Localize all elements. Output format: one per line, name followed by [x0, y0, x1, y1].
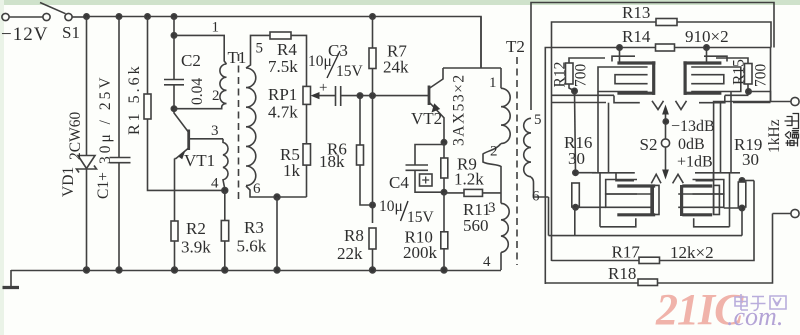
- svg-text:0.04: 0.04: [189, 78, 206, 105]
- svg-text:1: 1: [212, 20, 220, 36]
- svg-text:C2: C2: [181, 51, 201, 70]
- left green scan edge: [0, 0, 4, 335]
- svg-text:4: 4: [483, 254, 491, 270]
- svg-text:12k×2: 12k×2: [670, 243, 714, 262]
- ground bus nodes: [84, 267, 90, 273]
- wire R11 to T2 pin3: [483, 192, 502, 194]
- svg-text:R2: R2: [186, 219, 206, 238]
- capacitor C3: [335, 86, 337, 106]
- wire stubs upper-left: [552, 94, 615, 96]
- transistor VT1 emitter with arrow: [175, 149, 189, 159]
- wire R2 to ground bus: [174, 241, 176, 271]
- transistor VT1 base wire to T1 pin3: [189, 138, 223, 140]
- svg-text:R3: R3: [244, 218, 264, 237]
- contact notch lower-right: [673, 174, 684, 183]
- wire wafer link left outer: [597, 92, 599, 173]
- node C2 top: [171, 33, 176, 38]
- transformer T2 winding 3-4: [501, 203, 509, 252]
- capacitor C1: [110, 157, 131, 159]
- svg-text:RP1: RP1: [268, 85, 297, 104]
- node VT1 collector: [171, 106, 176, 111]
- svg-text:1: 1: [489, 75, 497, 91]
- label Chinese 输出 output (drawn strokes, rotated like 1kHz): [785, 114, 800, 147]
- resistor R7: [372, 17, 374, 49]
- svg-text:3: 3: [488, 200, 496, 216]
- node on bus at R1: [145, 14, 150, 19]
- lower-left wafer contacts (S2 section c): [592, 172, 635, 174]
- svg-text:VD1: VD1: [60, 167, 77, 197]
- svg-text:200k: 200k: [403, 243, 438, 262]
- svg-text:3: 3: [211, 123, 219, 139]
- wire T1 pin5 to R4: [246, 35, 270, 68]
- node R6/R8: [370, 202, 375, 207]
- resistor R19: [739, 178, 744, 183]
- svg-text:30μ / 25V: 30μ / 25V: [97, 74, 114, 164]
- svg-text:6: 6: [253, 181, 261, 197]
- node R14/right wafer: [704, 45, 709, 50]
- svg-text:R12: R12: [552, 62, 569, 88]
- node pin6 drop: [274, 194, 280, 200]
- svg-text:R13: R13: [622, 3, 650, 22]
- transformer T1 core: [238, 54, 240, 200]
- resistor R10: [443, 192, 445, 232]
- wire C2 bottom to collector node: [173, 85, 175, 109]
- svg-text:5.6k: 5.6k: [237, 237, 267, 256]
- transformer T1 feedback winding pins 3-4: [223, 139, 228, 190]
- 出 approx: [785, 114, 799, 129]
- svg-text:0dB: 0dB: [678, 136, 705, 153]
- zener diode VD1: [78, 156, 95, 169]
- transformer T2 primary winding 1-2: [501, 88, 510, 143]
- potentiometer RP1 wiper arrow: [318, 95, 336, 97]
- node VT2 emitter / C4 top: [441, 140, 446, 145]
- svg-text:560: 560: [463, 216, 489, 235]
- capacitor C4 loop wire: [415, 142, 444, 165]
- node on bus at R7: [370, 14, 375, 19]
- wire R1 to T1 pin4: [148, 119, 225, 190]
- terminal: -12V input left circle: [2, 13, 9, 20]
- svg-text:R8: R8: [344, 226, 364, 245]
- wire T2 pin5 top loop: [531, 3, 774, 111]
- wire top bus drop to T2 pin 1: [480, 17, 482, 69]
- zener diode VD1 wire bottom: [86, 169, 88, 271]
- wire: [9, 16, 43, 18]
- resistor R14 wire: [545, 48, 770, 285]
- potentiometer RP1: [303, 86, 311, 104]
- top green scan band: [0, 0, 800, 5]
- svg-text:R15: R15: [731, 59, 748, 85]
- transformer T2 secondary winding 5-6: [524, 118, 531, 176]
- resistor R13 wire: [552, 22, 772, 261]
- svg-text:S2: S2: [640, 135, 658, 154]
- svg-text:2CW60: 2CW60: [67, 112, 84, 160]
- svg-text:6: 6: [532, 189, 540, 205]
- svg-text:VT2: VT2: [411, 109, 442, 128]
- svg-text:VT1: VT1: [184, 151, 215, 170]
- wire R4 to RP1: [291, 35, 307, 86]
- resistor R13: [656, 19, 677, 26]
- node on bus at S1/VD1: [84, 14, 89, 19]
- resistor R8: [369, 228, 376, 249]
- svg-text:4.7k: 4.7k: [268, 103, 298, 122]
- node R9 bottom: [441, 190, 446, 195]
- wire T2 pin6: [531, 177, 549, 197]
- resistor R1 wire top: [147, 17, 149, 95]
- svg-text:T1: T1: [228, 48, 247, 67]
- svg-text:−13dB: −13dB: [671, 118, 715, 135]
- svg-text:5: 5: [256, 41, 264, 57]
- svg-text:24k: 24k: [383, 58, 409, 77]
- svg-text:R1 5.6k: R1 5.6k: [126, 63, 143, 135]
- capacitor C4: [406, 164, 429, 166]
- svg-text:−12V: −12V: [1, 24, 48, 45]
- svg-text:15V: 15V: [407, 209, 435, 226]
- resistor R12: [569, 58, 605, 63]
- node R14/left wafer: [617, 45, 622, 50]
- upper-right wafer contacts (S2 section b): [706, 48, 708, 62]
- wire RP1 to R5: [306, 104, 308, 143]
- transistor VT2 emitter with arrow: [429, 102, 444, 142]
- resistor R18: [638, 279, 658, 286]
- transistor VT2 base bar: [428, 86, 431, 106]
- wire: top supply bus: [87, 17, 482, 69]
- switch S1 right contact circle: [65, 13, 72, 20]
- resistor R15: [716, 58, 748, 64]
- wire R16 bottom chain / common rail: [574, 207, 576, 235]
- svg-text:R14: R14: [622, 27, 651, 46]
- contact notch: [652, 101, 664, 110]
- svg-text:1kHz: 1kHz: [766, 119, 783, 153]
- svg-text:700: 700: [573, 64, 590, 88]
- node R7 bottom: [370, 93, 375, 98]
- svg-text:30: 30: [742, 150, 759, 169]
- node on bus at C2 branch: [171, 14, 176, 19]
- contact notch lower-left: [651, 174, 661, 183]
- capacitor C4 plus box: [420, 174, 433, 186]
- resistor R9: [443, 142, 445, 158]
- svg-text:+: +: [319, 80, 327, 96]
- switch S1 left contact circle: [43, 13, 50, 20]
- wire T1 pin1: [174, 35, 227, 64]
- svg-text:3.9k: 3.9k: [181, 238, 211, 257]
- wire T1 pin2: [174, 104, 227, 109]
- svg-text:15V: 15V: [336, 63, 364, 80]
- svg-text:18k: 18k: [319, 152, 345, 171]
- svg-text:3AX53×2: 3AX53×2: [451, 73, 468, 146]
- svg-text:T2: T2: [506, 37, 525, 56]
- resistor R11: [464, 189, 483, 196]
- svg-text:22k: 22k: [337, 244, 363, 263]
- capacitor C1 wire bottom: [118, 163, 120, 270]
- resistor R17: [639, 257, 660, 263]
- upper-left wafer contacts (S2 section a): [619, 48, 621, 62]
- svg-text:2: 2: [212, 88, 220, 104]
- output+ terminal: [791, 97, 799, 105]
- wire C2 branch from bus: [173, 17, 175, 80]
- transistor VT1 base bar: [187, 130, 190, 151]
- ground bus: [11, 270, 501, 272]
- svg-text:7.5k: 7.5k: [268, 57, 298, 76]
- wire: [72, 16, 87, 18]
- wire T2 pin2 lead: [483, 144, 501, 204]
- resistor R18 wire: [545, 214, 772, 284]
- wire wafer link left inner: [608, 103, 610, 173]
- wire T2 pin1 lead: [500, 68, 502, 88]
- svg-text:910×2: 910×2: [685, 27, 729, 46]
- svg-text:4: 4: [211, 176, 219, 192]
- wire C3 to VT2 base: [341, 95, 429, 97]
- wire R12 to R16: [575, 91, 576, 173]
- lower-right wafer contacts (S2 section d): [695, 172, 740, 174]
- wire R7-R8 chain: [372, 96, 374, 223]
- transformer T2 core: [516, 57, 518, 265]
- resistor R3: [224, 190, 226, 222]
- capacitor C1 wire top: [118, 17, 120, 158]
- wire R5 to pin6 line: [306, 165, 308, 197]
- wire T1 pin6: [246, 186, 307, 197]
- wire collector to T2 pin1: [443, 67, 501, 69]
- wire R15 to output+: [749, 92, 771, 102]
- transistor VT1 collector: [174, 109, 188, 132]
- zener diode VD1 wire top: [86, 17, 88, 156]
- resistor R5: [303, 144, 311, 165]
- contact notch: [676, 101, 687, 110]
- resistor R14: [656, 44, 675, 51]
- svg-text:R17: R17: [612, 243, 641, 262]
- wire stubs upper-right: [725, 94, 749, 96]
- node R6 top: [357, 93, 362, 98]
- svg-text:2: 2: [490, 144, 498, 160]
- svg-text:30: 30: [568, 149, 585, 168]
- resistor R16: [573, 170, 578, 175]
- transformer T1 primary winding pins 1-2: [220, 64, 227, 103]
- resistor R1: [144, 94, 151, 119]
- capacitor C2: [164, 79, 184, 81]
- wire C4 bottom: [415, 170, 444, 192]
- wire wafer link right outer: [730, 92, 732, 173]
- wire T2 pin4 to ground bus: [500, 252, 502, 270]
- svg-text:C1+: C1+: [95, 172, 112, 199]
- svg-text:+1dB: +1dB: [677, 154, 713, 171]
- wire wafer link right inner: [720, 103, 722, 173]
- svg-text:10μ: 10μ: [379, 198, 403, 215]
- node on bus at C1: [116, 14, 121, 19]
- switch S2: [661, 139, 669, 147]
- output- wire: [773, 213, 792, 215]
- svg-text:C4: C4: [389, 173, 409, 192]
- transformer T1 secondary winding pins 5-6: [246, 68, 256, 186]
- svg-text:R18: R18: [608, 264, 636, 283]
- wire VT1 emitter down to R2: [174, 159, 176, 223]
- resistor R17 wire: [552, 181, 755, 261]
- watermark dianziwang (drawn strokes): [735, 294, 786, 311]
- 输 approx: [786, 139, 799, 147]
- output+ wire: [714, 102, 791, 215]
- svg-text:1.2k: 1.2k: [454, 170, 484, 189]
- svg-text:S1: S1: [62, 23, 80, 42]
- svg-text:10μ: 10μ: [308, 53, 332, 70]
- resistor R4: [270, 32, 291, 39]
- node T1 pin 4: [222, 188, 228, 194]
- wire pin6 node to ground: [276, 197, 278, 270]
- svg-text:1k: 1k: [283, 161, 301, 180]
- ground symbol: [10, 270, 12, 287]
- output- terminal: [791, 209, 799, 217]
- svg-text:700: 700: [753, 64, 770, 88]
- resistor R11 wire: [444, 192, 464, 194]
- switch S1 blade: [40, 3, 66, 14]
- svg-text:5: 5: [534, 112, 542, 128]
- resistor R2: [171, 221, 178, 241]
- transistor VT2 collector: [429, 68, 443, 89]
- resistor R6: [359, 96, 361, 145]
